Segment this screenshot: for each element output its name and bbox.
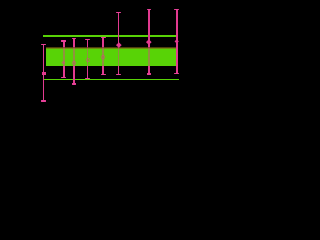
stem S5 upper <box>102 37 104 47</box>
stem S5 in-bar <box>102 47 104 66</box>
stem S4 upper <box>87 40 89 48</box>
stem S5 lower <box>102 66 104 74</box>
stem S2 top cap <box>61 40 66 41</box>
stem S6 in-bar <box>118 47 120 66</box>
stem S6 diamond marker <box>116 42 121 47</box>
stem S1 <box>43 44 45 101</box>
stem S3 lower <box>73 66 75 84</box>
stem S5 bottom cap <box>101 74 106 75</box>
green bottom line <box>44 79 179 80</box>
stem S1 top cap <box>41 44 46 45</box>
stem S3 top cap <box>72 38 77 39</box>
stem S3 in-bar <box>73 47 75 66</box>
stem S8 <box>176 10 178 74</box>
stem S5 ring marker <box>101 55 105 59</box>
stem S1 square marker <box>42 72 46 76</box>
stem S3 bottom cap <box>72 83 77 84</box>
stem S8 bottom cap <box>174 73 179 74</box>
stem S4 ring marker <box>86 58 90 62</box>
stem S4 bottom cap <box>85 78 90 79</box>
green top line <box>43 35 176 36</box>
stem S7 in-bar <box>148 47 150 66</box>
green bar <box>46 47 177 66</box>
stem S3 ring marker <box>72 61 76 65</box>
stem S2 lower <box>63 66 65 77</box>
stem S3 upper <box>73 38 75 47</box>
stem S7 bottom cap <box>147 73 152 74</box>
stem S7 diamond marker <box>146 39 151 44</box>
stem S6 lower <box>118 66 120 74</box>
stem S7 top cap <box>147 9 152 10</box>
stem S6 upper <box>118 13 120 48</box>
stem S4 top cap <box>85 39 90 40</box>
stem S4 in-bar <box>87 47 89 66</box>
stem S2 diamond marker <box>62 61 66 65</box>
stem S5 top cap <box>101 37 106 38</box>
stem S2 in-bar <box>63 47 65 66</box>
stem S6 top cap <box>116 12 121 13</box>
stem S2 bottom cap <box>61 77 66 78</box>
stem S7 upper <box>148 9 150 47</box>
bar top maroon edge <box>46 47 177 49</box>
stem S6 bottom cap <box>116 74 121 75</box>
stem S2 upper <box>63 41 65 47</box>
stem S1 bottom cap <box>41 100 46 101</box>
stem S7 lower <box>148 66 150 74</box>
stem S4 lower <box>87 66 89 78</box>
stem S8 top cap <box>174 9 179 10</box>
stem S8 diamond marker <box>174 40 179 45</box>
